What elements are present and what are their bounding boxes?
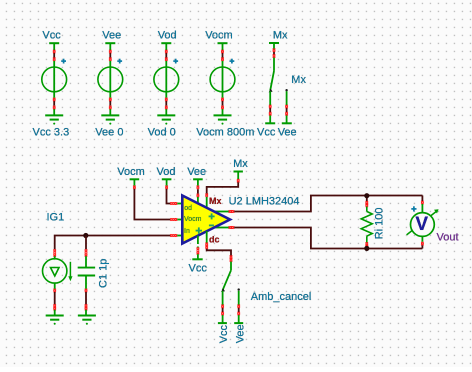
svg-text:IG1: IG1 bbox=[47, 212, 65, 224]
svg-text:Mx: Mx bbox=[273, 30, 288, 42]
svg-text:Vcc 3.3: Vcc 3.3 bbox=[33, 126, 70, 138]
svg-text:Vout: Vout bbox=[437, 231, 459, 243]
svg-text:dc: dc bbox=[209, 235, 220, 245]
svg-text:Amb_cancel: Amb_cancel bbox=[251, 291, 312, 303]
svg-text:Vcc: Vcc bbox=[189, 263, 208, 275]
svg-text:Vcc: Vcc bbox=[218, 324, 230, 343]
svg-text:Vee: Vee bbox=[278, 126, 297, 138]
svg-text:C1 1p: C1 1p bbox=[97, 259, 109, 288]
svg-text:Vee 0: Vee 0 bbox=[95, 126, 123, 138]
svg-text:Vocm: Vocm bbox=[117, 166, 145, 178]
svg-text:Vcc: Vcc bbox=[42, 30, 61, 42]
svg-text:Vee: Vee bbox=[234, 324, 246, 343]
svg-text:Vee: Vee bbox=[187, 166, 206, 178]
svg-text:In: In bbox=[184, 228, 190, 235]
svg-text:Ri 100: Ri 100 bbox=[373, 208, 385, 240]
svg-text:U2 LMH32404: U2 LMH32404 bbox=[229, 196, 300, 208]
svg-text:Vod: Vod bbox=[158, 30, 177, 42]
svg-text:Mx: Mx bbox=[209, 196, 222, 206]
svg-text:Mx: Mx bbox=[233, 158, 248, 170]
svg-text:V: V bbox=[415, 214, 428, 235]
svg-text:Vod: Vod bbox=[157, 166, 176, 178]
svg-text:Vod 0: Vod 0 bbox=[148, 126, 176, 138]
svg-text:Vocm: Vocm bbox=[184, 216, 202, 223]
svg-text:Vcc: Vcc bbox=[257, 126, 276, 138]
svg-text:od: od bbox=[184, 205, 192, 212]
svg-text:Vee: Vee bbox=[102, 30, 121, 42]
svg-text:Mx: Mx bbox=[291, 74, 306, 86]
svg-text:Vocm: Vocm bbox=[205, 30, 233, 42]
svg-text:Vocm 800m: Vocm 800m bbox=[196, 126, 254, 138]
